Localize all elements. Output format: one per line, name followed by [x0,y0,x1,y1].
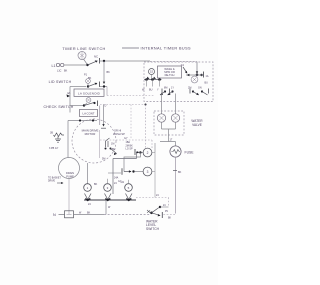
svg-text:1Y: 1Y [171,86,174,89]
svg-text:P9: P9 [165,211,169,213]
svg-text:24: 24 [88,203,91,206]
svg-text:8M: 8M [164,86,167,89]
svg-text:TIMER LINE SWITCH: TIMER LINE SWITCH [62,47,105,51]
svg-text:1: 1 [87,186,89,190]
svg-text:BK: BK [94,183,98,186]
svg-text:BU: BU [205,82,209,85]
svg-text:3: 3 [147,170,149,174]
svg-text:L1C: L1C [57,69,62,72]
svg-text:GN: GN [121,181,125,184]
svg-text:15: 15 [150,70,154,74]
svg-text:BK: BK [178,171,182,174]
svg-text:W: W [142,88,145,91]
svg-text:GN: GN [198,86,202,89]
svg-text:P1: P1 [84,73,88,76]
svg-text:TO BASKET: TO BASKET [48,177,61,180]
svg-text:OR HI: OR HI [114,128,121,132]
svg-text:NC: NC [94,55,98,59]
svg-text:W: W [79,211,82,214]
svg-text:3B: 3B [50,132,53,135]
svg-text:DE-TCH: DE-TCH [165,73,175,77]
svg-text:PUMP: PUMP [66,174,74,178]
svg-text:LID SWITCH: LID SWITCH [49,80,72,84]
svg-text:INTERNAL TIMER BUSS: INTERNAL TIMER BUSS [141,47,191,51]
svg-text:24: 24 [156,194,159,197]
svg-text:3: 3 [107,186,109,190]
svg-text:BK: BK [87,211,91,214]
svg-text:N: N [53,213,56,217]
svg-text:5: 5 [128,186,130,190]
svg-text:2: 2 [147,151,149,155]
svg-text:FUSE: FUSE [185,151,195,155]
svg-text:17: 17 [170,138,173,141]
svg-text:LA SOLENOID: LA SOLENOID [78,91,101,95]
svg-text:LO SP: LO SP [126,148,133,151]
svg-text:SWITCH: SWITCH [146,227,160,231]
svg-text:3 PB GY: 3 PB GY [49,147,59,150]
svg-text:DRIVE: DRIVE [48,181,55,183]
svg-text:BK: BK [107,71,111,74]
svg-text:1M: 1M [111,143,114,146]
svg-text:Y: Y [157,88,159,91]
svg-text:L1: L1 [52,64,56,68]
svg-text:5M: 5M [102,157,105,160]
svg-text:BK: BK [64,69,68,72]
svg-text:W: W [108,206,111,209]
svg-text:BU: BU [112,148,116,151]
svg-text:VALVE: VALVE [192,123,202,127]
svg-text:BK: BK [168,218,172,220]
svg-text:LA CONT: LA CONT [83,112,95,116]
svg-text:24: 24 [114,182,117,185]
svg-text:DRAIN: DRAIN [66,171,74,175]
svg-text:D: D [105,105,107,108]
svg-text:1A: 1A [206,75,209,78]
svg-text:GY: GY [124,137,128,140]
svg-text:14: 14 [181,63,185,67]
svg-text:CHECK SWITCH: CHECK SWITCH [43,105,73,109]
svg-text:BU: BU [149,88,153,91]
svg-text:MOTOR: MOTOR [85,132,96,136]
